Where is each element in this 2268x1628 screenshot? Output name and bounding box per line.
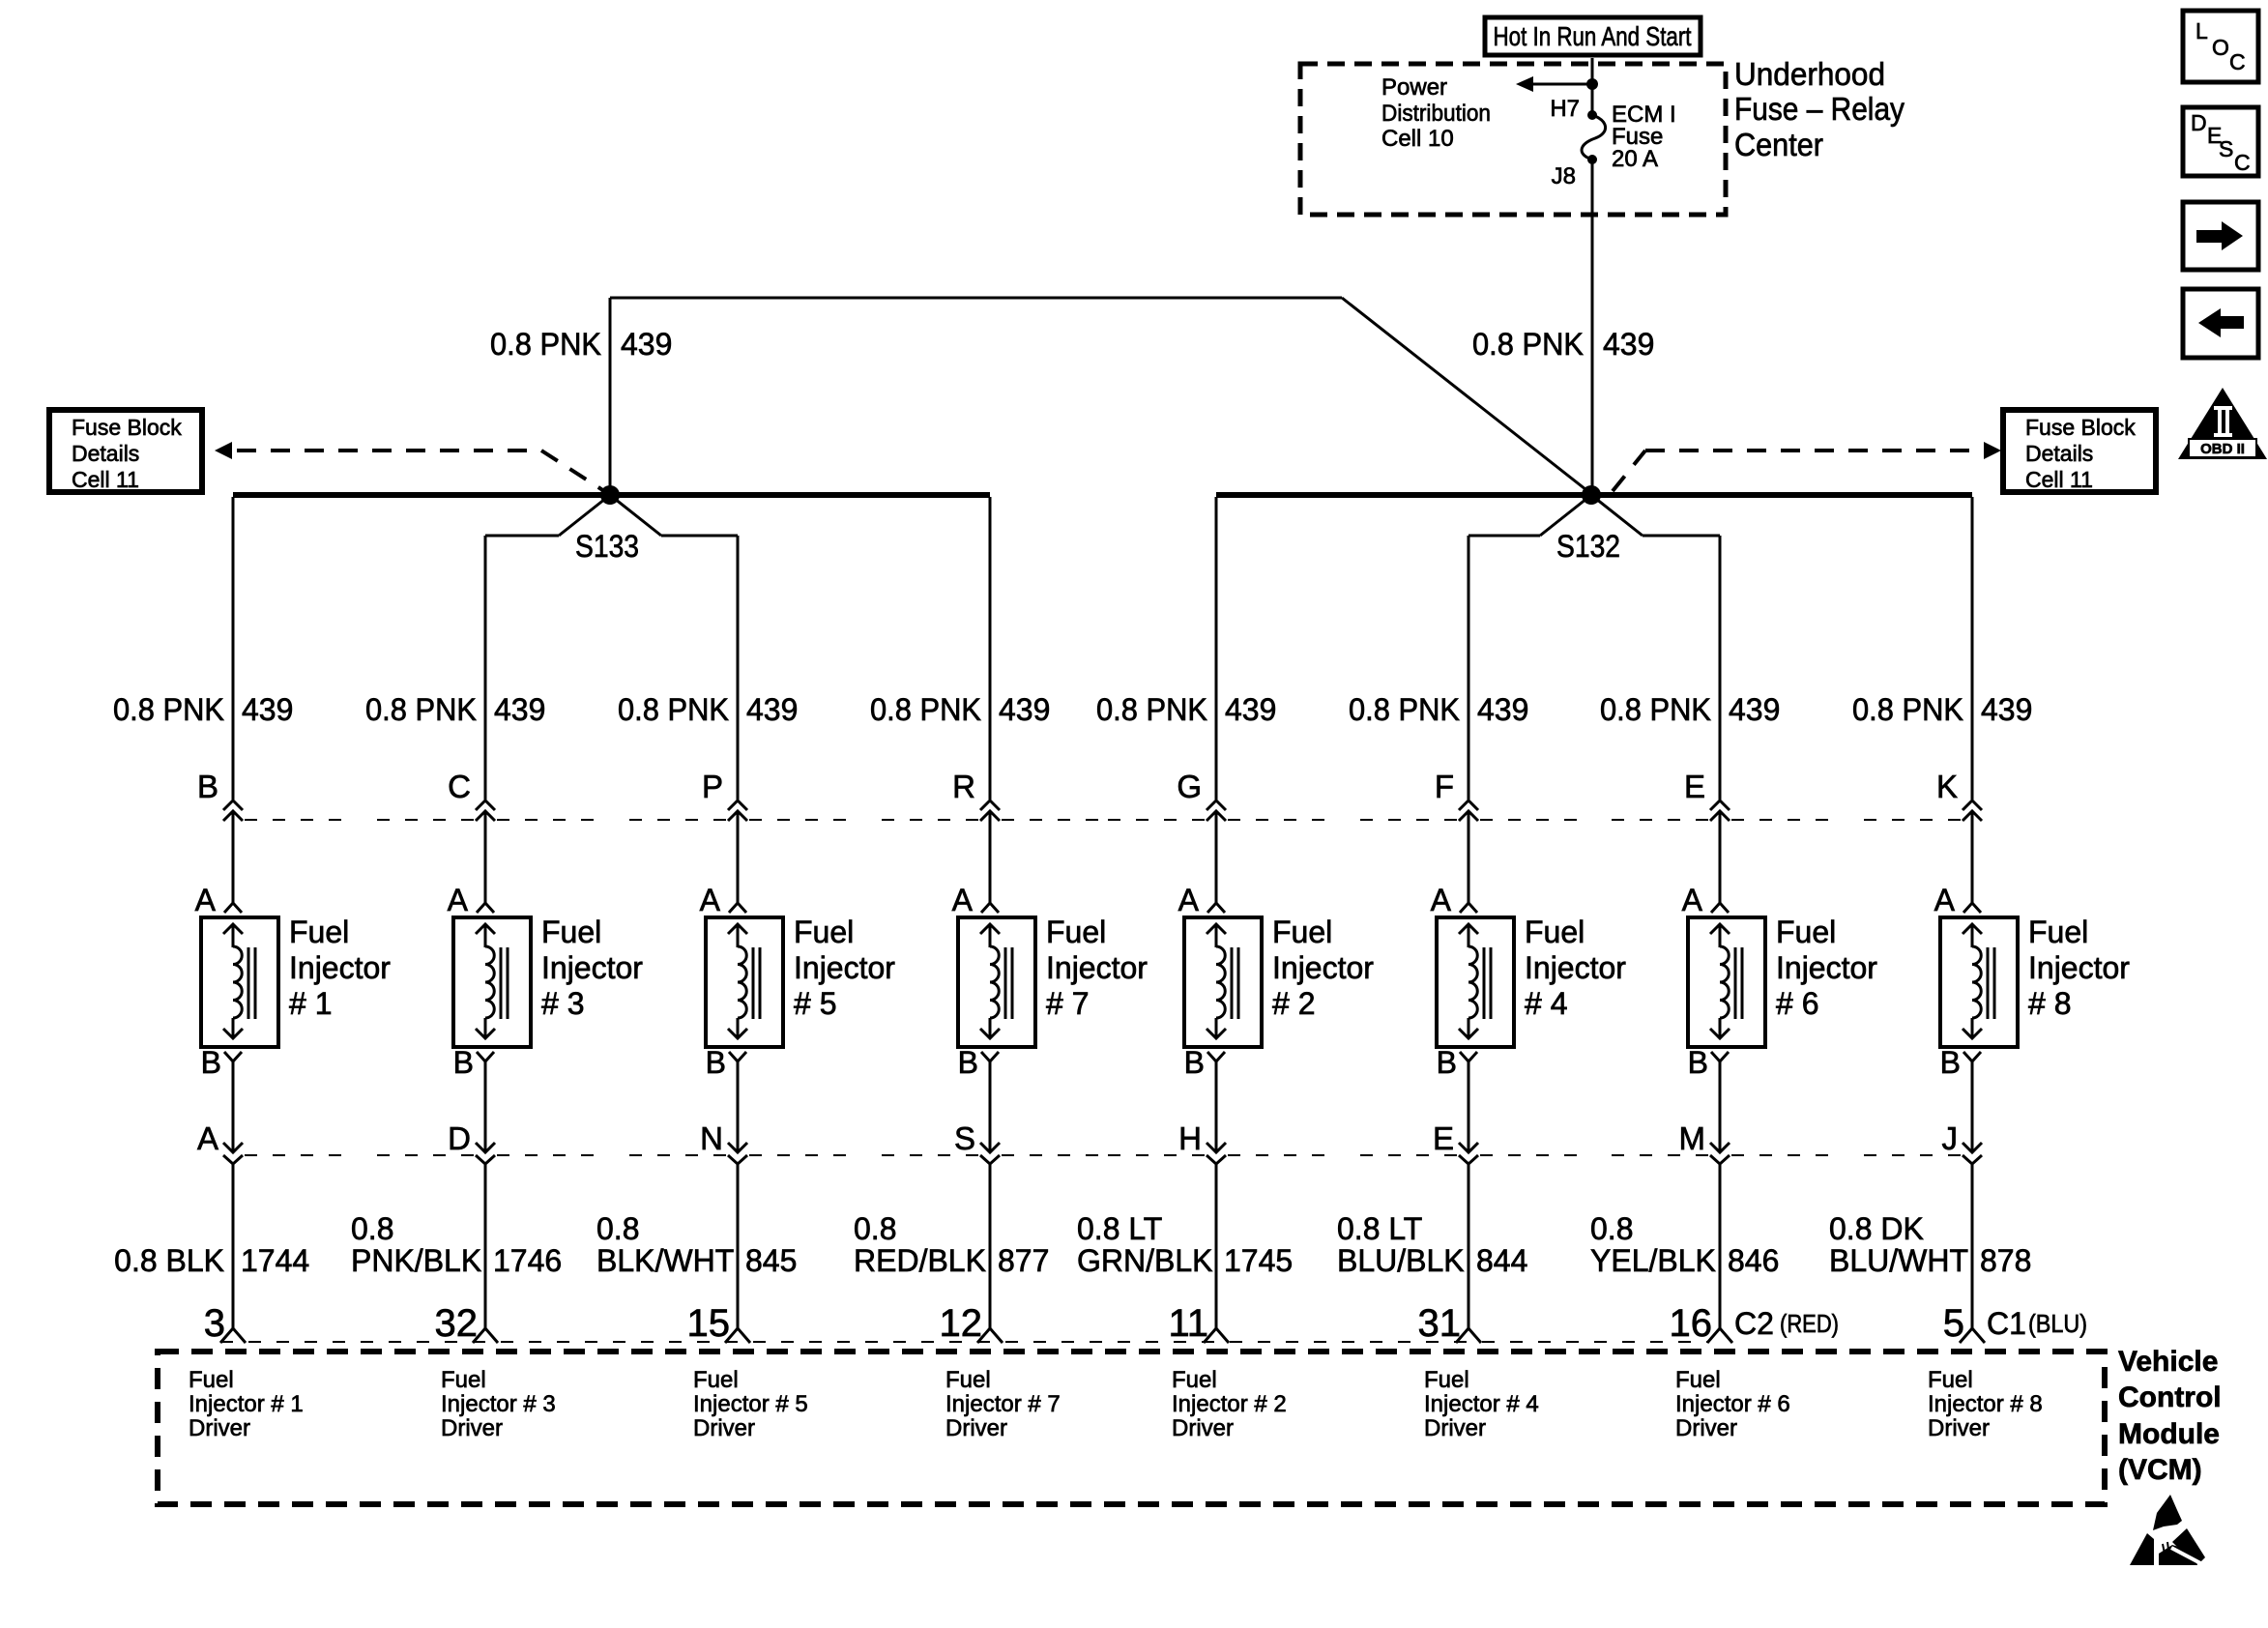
svg-text:Fuse Block: Fuse Block [2025, 415, 2136, 440]
svg-text:Injector: Injector [541, 950, 643, 985]
svg-text:B: B [706, 1045, 726, 1080]
svg-text:Fuel: Fuel [289, 915, 349, 949]
svg-text:A: A [1178, 883, 1200, 917]
svg-text:32: 32 [435, 1302, 479, 1345]
svg-text:1744: 1744 [241, 1243, 309, 1278]
svg-text:0.8 DK: 0.8 DK [1829, 1211, 1924, 1246]
svg-text:R: R [952, 769, 975, 804]
svg-text:439: 439 [1729, 692, 1780, 727]
svg-text:20 A: 20 A [1612, 146, 1658, 172]
svg-text:1746: 1746 [493, 1243, 562, 1278]
svg-text:Fuel: Fuel [693, 1367, 739, 1393]
svg-text:H7: H7 [1550, 96, 1580, 122]
svg-text:YEL/BLK: YEL/BLK [1590, 1243, 1716, 1278]
svg-text:844: 844 [1476, 1243, 1527, 1278]
svg-text:Injector # 7: Injector # 7 [945, 1391, 1061, 1417]
svg-text:# 6: # 6 [1776, 986, 1818, 1021]
svg-text:B: B [1437, 1045, 1457, 1080]
svg-text:0.8: 0.8 [351, 1211, 393, 1246]
svg-text:Injector: Injector [1046, 950, 1148, 985]
svg-text:A: A [1431, 883, 1452, 917]
svg-text:0.8: 0.8 [1590, 1211, 1633, 1246]
svg-text:PNK/BLK: PNK/BLK [351, 1243, 481, 1278]
svg-text:Details: Details [72, 441, 139, 466]
svg-text:0.8 PNK: 0.8 PNK [365, 692, 477, 727]
svg-text:Injector # 6: Injector # 6 [1675, 1391, 1790, 1417]
svg-text:B: B [201, 1045, 221, 1080]
svg-text:Fuel: Fuel [1424, 1367, 1469, 1393]
svg-text:0.8 LT: 0.8 LT [1077, 1211, 1162, 1246]
svg-text:12: 12 [940, 1302, 983, 1345]
svg-text:Injector: Injector [794, 950, 895, 985]
svg-text:0.8 PNK: 0.8 PNK [1349, 692, 1460, 727]
svg-text:Injector # 4: Injector # 4 [1424, 1391, 1539, 1417]
svg-text:G: G [1177, 769, 1202, 804]
svg-text:Cell 11: Cell 11 [2025, 467, 2093, 492]
svg-text:Fuel: Fuel [1272, 915, 1332, 949]
svg-text:C: C [2229, 49, 2246, 74]
svg-text:439: 439 [1603, 327, 1654, 362]
svg-text:A: A [197, 1120, 218, 1156]
svg-text:Center: Center [1734, 127, 1823, 162]
svg-text:5: 5 [1943, 1302, 1964, 1345]
svg-text:Driver: Driver [189, 1415, 250, 1441]
svg-text:A: A [195, 883, 217, 917]
svg-text:Underhood: Underhood [1734, 56, 1885, 92]
svg-text:P: P [702, 769, 723, 804]
svg-text:B: B [1940, 1045, 1961, 1080]
svg-text:0.8 PNK: 0.8 PNK [490, 327, 601, 362]
svg-text:S: S [2219, 136, 2233, 161]
svg-text:0.8 BLK: 0.8 BLK [114, 1243, 224, 1278]
svg-text:BLU/BLK: BLU/BLK [1337, 1243, 1465, 1278]
svg-text:0.8 LT: 0.8 LT [1337, 1211, 1422, 1246]
svg-text:Fuel: Fuel [2028, 915, 2088, 949]
svg-text:B: B [1688, 1045, 1708, 1080]
svg-text:Injector # 1: Injector # 1 [189, 1391, 304, 1417]
svg-text:N: N [700, 1120, 723, 1156]
svg-text:16: 16 [1670, 1302, 1713, 1345]
svg-text:(RED): (RED) [1780, 1309, 1839, 1338]
svg-text:C: C [2234, 150, 2251, 175]
svg-text:Distribution: Distribution [1381, 101, 1491, 127]
svg-text:Injector # 3: Injector # 3 [441, 1391, 556, 1417]
svg-text:0.8 PNK: 0.8 PNK [1600, 692, 1711, 727]
svg-text:C2: C2 [1734, 1306, 1774, 1341]
svg-text:15: 15 [687, 1302, 731, 1345]
svg-text:K: K [1936, 769, 1958, 804]
svg-text:Injector: Injector [2028, 950, 2130, 985]
svg-text:A: A [700, 883, 721, 917]
svg-text:Fuel: Fuel [441, 1367, 486, 1393]
svg-text:E: E [1684, 769, 1705, 804]
svg-text:3: 3 [204, 1302, 225, 1345]
svg-text:# 8: # 8 [2028, 986, 2071, 1021]
svg-text:# 5: # 5 [794, 986, 836, 1021]
svg-text:A: A [1934, 883, 1956, 917]
svg-text:O: O [2212, 35, 2229, 60]
svg-text:439: 439 [1981, 692, 2032, 727]
svg-text:0.8 PNK: 0.8 PNK [1852, 692, 1963, 727]
svg-text:439: 439 [1225, 692, 1276, 727]
svg-text:# 7: # 7 [1046, 986, 1089, 1021]
svg-text:# 1: # 1 [289, 986, 332, 1021]
svg-text:Injector: Injector [289, 950, 391, 985]
svg-text:0.8: 0.8 [596, 1211, 639, 1246]
svg-text:Injector: Injector [1272, 950, 1374, 985]
svg-text:Fuel: Fuel [541, 915, 601, 949]
svg-text:Control: Control [2118, 1381, 2222, 1413]
svg-text:Cell 10: Cell 10 [1381, 126, 1454, 152]
svg-text:Driver: Driver [441, 1415, 503, 1441]
svg-text:RED/BLK: RED/BLK [854, 1243, 986, 1278]
svg-text:D: D [2191, 110, 2207, 135]
svg-text:31: 31 [1418, 1302, 1462, 1345]
svg-text:439: 439 [1477, 692, 1528, 727]
svg-text:Driver: Driver [693, 1415, 755, 1441]
svg-text:0.8 PNK: 0.8 PNK [1472, 327, 1584, 362]
svg-text:Injector # 8: Injector # 8 [1928, 1391, 2043, 1417]
svg-text:E: E [1433, 1120, 1454, 1156]
svg-text:Injector: Injector [1776, 950, 1877, 985]
svg-text:GRN/BLK: GRN/BLK [1077, 1243, 1212, 1278]
svg-text:Vehicle: Vehicle [2118, 1346, 2218, 1378]
svg-text:Fuse – Relay: Fuse – Relay [1734, 91, 1905, 127]
svg-text:S132: S132 [1556, 529, 1620, 564]
svg-text:(VCM): (VCM) [2118, 1454, 2202, 1486]
svg-text:846: 846 [1728, 1243, 1779, 1278]
svg-text:Injector # 2: Injector # 2 [1172, 1391, 1287, 1417]
svg-text:1745: 1745 [1224, 1243, 1293, 1278]
svg-text:# 3: # 3 [541, 986, 584, 1021]
svg-text:B: B [453, 1045, 474, 1080]
svg-text:Fuel: Fuel [1046, 915, 1106, 949]
svg-text:0.8: 0.8 [854, 1211, 896, 1246]
svg-text:Cell 11: Cell 11 [72, 467, 139, 492]
svg-text:OBD II: OBD II [2200, 441, 2245, 457]
svg-text:A: A [952, 883, 974, 917]
svg-text:Hot In Run And Start: Hot In Run And Start [1494, 21, 1692, 51]
svg-text:878: 878 [1980, 1243, 2031, 1278]
svg-text:C: C [448, 769, 471, 804]
svg-text:Power: Power [1381, 74, 1447, 101]
svg-text:439: 439 [746, 692, 798, 727]
svg-text:Fuel: Fuel [1776, 915, 1836, 949]
svg-text:Fuel: Fuel [1928, 1367, 1973, 1393]
svg-text:S: S [954, 1120, 975, 1156]
svg-text:A: A [448, 883, 469, 917]
svg-text:Fuel: Fuel [189, 1367, 234, 1393]
svg-text:Driver: Driver [1928, 1415, 1990, 1441]
svg-text:Fuel: Fuel [945, 1367, 991, 1393]
svg-text:Driver: Driver [1424, 1415, 1486, 1441]
svg-text:439: 439 [621, 327, 672, 362]
svg-text:J8: J8 [1552, 163, 1576, 189]
svg-text:J: J [1942, 1120, 1959, 1156]
svg-text:Module: Module [2118, 1418, 2220, 1450]
svg-text:877: 877 [998, 1243, 1049, 1278]
svg-text:Driver: Driver [945, 1415, 1007, 1441]
svg-text:439: 439 [242, 692, 293, 727]
svg-text:0.8 PNK: 0.8 PNK [1096, 692, 1207, 727]
svg-text:Fuse Block: Fuse Block [72, 415, 182, 440]
svg-text:Fuel: Fuel [1525, 915, 1585, 949]
svg-text:0.8 PNK: 0.8 PNK [870, 692, 981, 727]
svg-text:A: A [1682, 883, 1703, 917]
svg-text:M: M [1679, 1120, 1706, 1156]
svg-text:845: 845 [745, 1243, 797, 1278]
svg-text:B: B [197, 769, 218, 804]
svg-text:B: B [1184, 1045, 1205, 1080]
svg-text:Driver: Driver [1675, 1415, 1737, 1441]
svg-text:S133: S133 [575, 529, 639, 564]
svg-text:Fuel: Fuel [1172, 1367, 1217, 1393]
svg-text:(BLU): (BLU) [2028, 1309, 2087, 1338]
svg-text:0.8 PNK: 0.8 PNK [113, 692, 224, 727]
svg-text:H: H [1178, 1120, 1202, 1156]
svg-text:B: B [958, 1045, 978, 1080]
svg-text:D: D [448, 1120, 471, 1156]
svg-text:BLU/WHT: BLU/WHT [1829, 1243, 1968, 1278]
svg-text:# 2: # 2 [1272, 986, 1315, 1021]
svg-text:Fuel: Fuel [1675, 1367, 1721, 1393]
svg-text:11: 11 [1168, 1302, 1208, 1345]
svg-text:439: 439 [494, 692, 545, 727]
svg-text:Details: Details [2025, 441, 2093, 466]
svg-text:F: F [1435, 769, 1454, 804]
svg-text:439: 439 [999, 692, 1050, 727]
svg-text:# 4: # 4 [1525, 986, 1567, 1021]
svg-text:C1: C1 [1987, 1306, 2026, 1341]
svg-text:Injector: Injector [1525, 950, 1626, 985]
svg-text:Injector # 5: Injector # 5 [693, 1391, 808, 1417]
svg-text:BLK/WHT: BLK/WHT [596, 1243, 734, 1278]
svg-text:Fuel: Fuel [794, 915, 854, 949]
svg-text:0.8 PNK: 0.8 PNK [618, 692, 729, 727]
svg-text:Driver: Driver [1172, 1415, 1234, 1441]
svg-text:L: L [2195, 18, 2208, 44]
